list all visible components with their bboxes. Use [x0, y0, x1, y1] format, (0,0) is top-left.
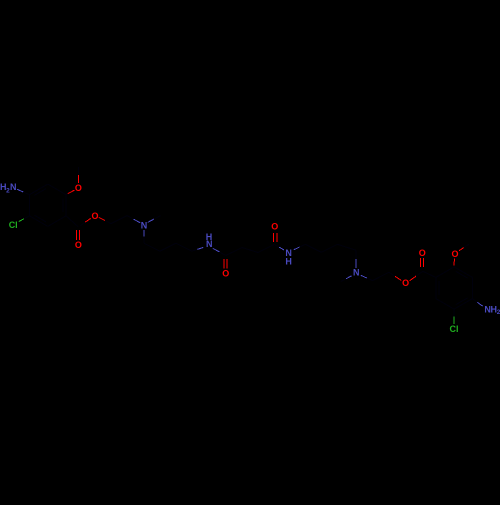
- svg-text:Cl: Cl: [450, 324, 459, 334]
- svg-text:O: O: [402, 278, 409, 288]
- svg-text:O: O: [75, 183, 82, 193]
- svg-text:N: N: [141, 220, 148, 230]
- svg-text:O: O: [451, 249, 458, 259]
- svg-text:N: N: [10, 182, 17, 192]
- svg-text:O: O: [222, 268, 229, 278]
- svg-text:N: N: [206, 239, 213, 249]
- svg-text:Cl: Cl: [9, 220, 18, 230]
- svg-text:O: O: [75, 240, 82, 250]
- svg-text:H: H: [285, 257, 292, 267]
- svg-text:O: O: [419, 248, 426, 258]
- svg-text:O: O: [91, 211, 98, 221]
- svg-text:N: N: [353, 268, 360, 278]
- svg-text:O: O: [271, 221, 278, 231]
